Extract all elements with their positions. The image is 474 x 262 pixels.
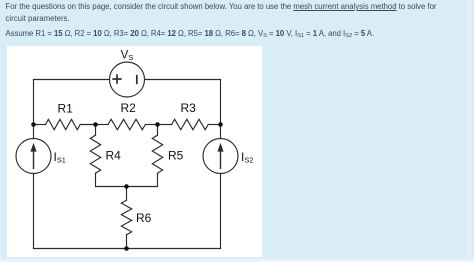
- wire R4-R5 bottom rail: [96, 186, 158, 188]
- svg-text:R2: R2: [121, 101, 137, 115]
- wire R4 to bottom rail: [95, 173, 97, 186]
- resistor R1: [46, 119, 81, 129]
- node E dot: [124, 184, 129, 189]
- wire node C to R5: [157, 125, 159, 136]
- resistor R2: [108, 119, 145, 129]
- wire node C to R3: [158, 124, 172, 126]
- svg-text:R1: R1: [58, 102, 74, 116]
- VS plus sign: [112, 74, 121, 83]
- resistor R6: [121, 200, 131, 234]
- wire node B to R4: [95, 125, 97, 136]
- svg-text:R4: R4: [106, 149, 122, 163]
- resistor R5: [152, 135, 162, 173]
- wire top-right horizontal: [145, 79, 221, 81]
- wire node A to R1: [34, 124, 46, 126]
- wire right vertical upper: [220, 80, 222, 139]
- wire right vertical lower: [220, 174, 222, 249]
- resistor R3: [172, 119, 209, 129]
- wire top-left horizontal: [34, 79, 110, 81]
- current source IS1 circle: [16, 139, 51, 174]
- node B dot: [93, 122, 98, 127]
- node C dot: [155, 122, 160, 127]
- svg-text:R6: R6: [136, 211, 152, 225]
- wire R2 to node C: [145, 124, 157, 126]
- svg-text:R3: R3: [181, 101, 197, 115]
- voltage source VS circle: [110, 62, 145, 97]
- IS2 arrow: [217, 143, 223, 169]
- node F dot: [124, 246, 129, 251]
- wire left vertical lower: [33, 174, 35, 249]
- wire R3 to node D: [208, 124, 220, 126]
- node D dot: [218, 122, 223, 127]
- wire bottom horizontal: [34, 248, 221, 250]
- wire R5 to bottom rail: [157, 173, 159, 186]
- resistor R4: [90, 135, 100, 173]
- wire node E to R6: [126, 187, 128, 201]
- wire R6 to bottom wire: [126, 235, 128, 249]
- wire R1 to node B: [80, 124, 95, 126]
- wire left vertical upper: [33, 80, 35, 139]
- wire node B to R2: [96, 124, 109, 126]
- circuit canvas (white): [7, 46, 262, 257]
- svg-text:R5: R5: [168, 149, 184, 163]
- VS minus bar: [136, 75, 138, 84]
- node A dot: [31, 122, 36, 127]
- current source IS2 circle: [203, 139, 238, 174]
- IS1 arrow: [30, 143, 36, 169]
